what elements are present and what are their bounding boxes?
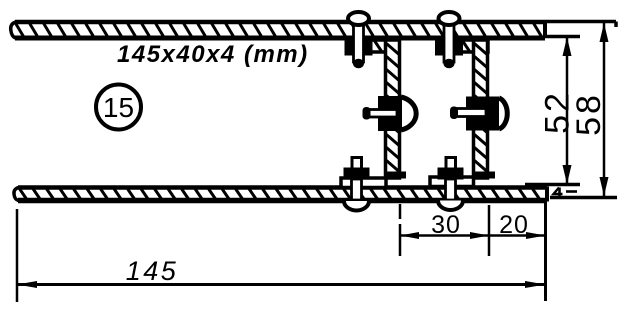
extension line below left web [399, 204, 402, 256]
dimension 4 (bar thickness) [554, 188, 578, 199]
top-left bolt through top bar [345, 12, 373, 68]
svg-text:58: 58 [570, 92, 608, 136]
svg-text:20: 20 [499, 211, 529, 239]
bottom-left bolt through bottom bar [344, 158, 370, 211]
svg-text:145x40x4 (mm): 145x40x4 (mm) [117, 41, 309, 68]
hatching of bottom bar [20, 190, 540, 200]
left angle member: vertical web [385, 40, 406, 179]
bottom flat bar [14, 187, 547, 202]
dimension 145 [17, 256, 546, 288]
extension line bottom inner (52) [525, 183, 580, 187]
extension line left end (145) [16, 209, 19, 302]
right angle member: bottom flange [430, 177, 474, 187]
svg-text:30: 30 [431, 211, 461, 239]
top-right bolt through top bar [435, 12, 463, 68]
left angle member: top flange [362, 40, 399, 52]
extension line top outer (58) [545, 22, 616, 28]
dimension 58 [570, 23, 609, 196]
right angle member: top flange [450, 40, 488, 52]
hatching of top bar [16, 24, 542, 37]
dimension 20 [489, 211, 546, 239]
bottom-right bolt through bottom bar [438, 158, 464, 211]
part balloon 15 [96, 85, 141, 130]
dimension 30 [400, 211, 489, 239]
extension line right end of bottom bar [544, 202, 547, 301]
middle bolt through left web [363, 96, 417, 131]
svg-text:15: 15 [103, 92, 134, 123]
svg-text:145: 145 [126, 256, 179, 286]
extension line bottom outer (58) [550, 196, 617, 200]
extension line below right web [488, 205, 491, 256]
middle bolt through right web [450, 97, 507, 131]
extension line top inner (52) [543, 35, 580, 39]
dimension 52 [539, 37, 577, 184]
left angle member: bottom flange [341, 178, 386, 188]
right angle member: vertical web [473, 40, 495, 179]
top flat bar (145x40x4 channel flange) [11, 21, 545, 38]
